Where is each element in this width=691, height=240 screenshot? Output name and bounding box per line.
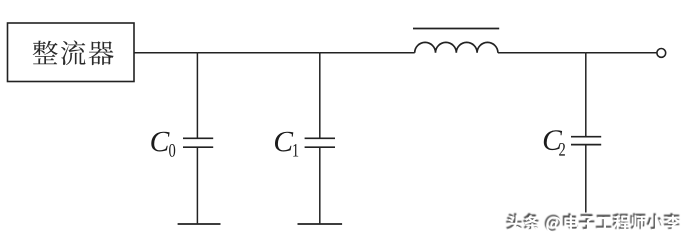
label C0 (151, 132, 169, 152)
label C1 (275, 132, 293, 152)
capacitor C1 plates (305, 138, 335, 147)
capacitor C1 top lead (319, 53, 321, 138)
label C0 subscript 0 (169, 144, 175, 157)
capacitor C0 plates (183, 138, 213, 147)
wire: inductor to node C (498, 52, 586, 54)
capacitor C1 bottom lead (319, 148, 321, 224)
capacitor C2 plates (571, 137, 601, 145)
ground bar of C1 (298, 223, 343, 225)
rectifier box U1 (8, 23, 135, 82)
watermark 头条@电子工程师小李 highlight layer (507, 215, 681, 233)
wire: rectifier output to node A (134, 52, 197, 54)
inductor L core bar (413, 28, 499, 30)
capacitor C2 top lead (585, 53, 587, 136)
label C2 (544, 130, 562, 150)
wire: node B to inductor (320, 52, 415, 54)
capacitor C0 top lead (196, 53, 198, 138)
inductor L winding (415, 42, 498, 52)
ground bar of C0 (178, 223, 221, 225)
label C1 subscript 1 (293, 144, 298, 157)
capacitor C2 bottom lead (585, 145, 587, 212)
watermark 头条@电子工程师小李 shadow layer (506, 213, 680, 231)
capacitor C0 bottom lead (196, 148, 198, 224)
wire: node A to node B (197, 52, 319, 54)
wire: node C to output terminal (586, 52, 657, 54)
rectifier label 整流器 (33, 40, 114, 65)
label C2 subscript 2 (559, 143, 565, 156)
output terminal (open circle) (657, 49, 666, 58)
